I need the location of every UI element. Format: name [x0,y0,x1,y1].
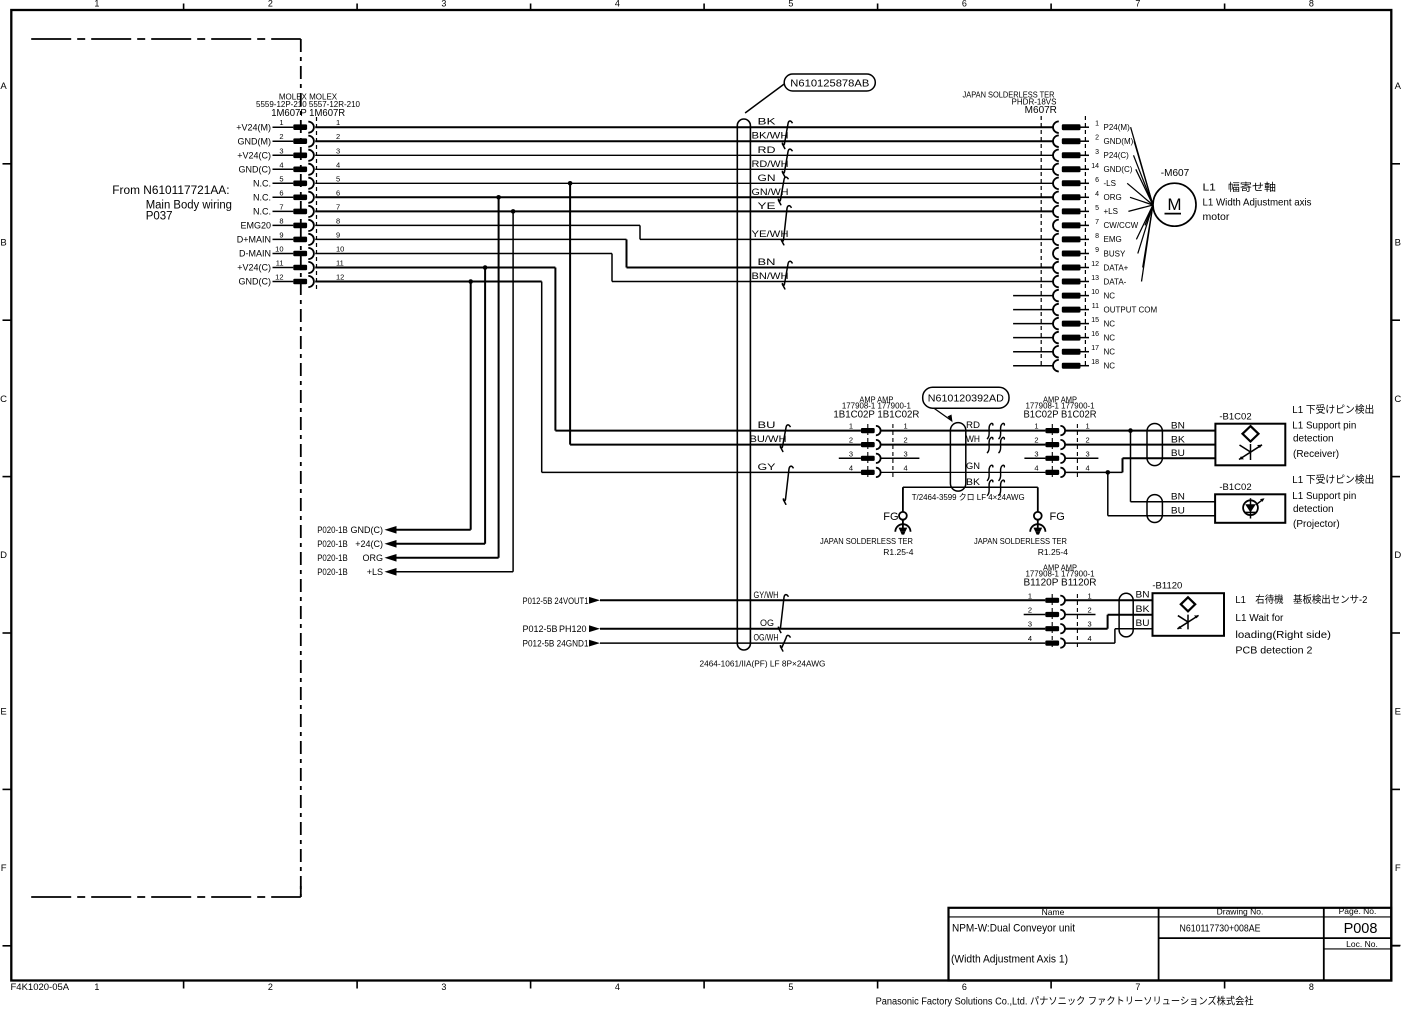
svg-text:+V24(C): +V24(C) [237,263,271,273]
svg-text:12: 12 [275,273,283,282]
svg-text:M607R: M607R [1025,105,1057,116]
svg-text:1: 1 [849,422,853,431]
svg-text:RD: RD [758,145,777,155]
svg-text:3: 3 [904,449,908,458]
dashed lines 1B1C02 [867,424,869,478]
svg-text:PH120: PH120 [559,624,587,634]
dash-dot boundary (main body wiring) [31,38,301,40]
svg-text:P020-1B: P020-1B [317,539,348,549]
svg-text:1: 1 [904,422,908,431]
svg-text:GND(M): GND(M) [238,136,272,146]
svg-text:4: 4 [615,0,620,9]
frame zone ticks [183,4,185,11]
sensor B1C02 projector box [1215,494,1285,523]
svg-text:GY/WH: GY/WH [754,590,779,600]
svg-text:1: 1 [94,0,99,9]
svg-text:DATA-: DATA- [1104,277,1127,286]
svg-text:NC: NC [1104,333,1116,342]
svg-text:BN: BN [1171,420,1185,430]
svg-text:9: 9 [1095,247,1099,254]
svg-text:CW/CCW: CW/CCW [1104,221,1139,230]
cable oval B1120 [1119,593,1133,637]
svg-text:P008: P008 [1344,921,1378,937]
svg-text:RD/WH: RD/WH [752,159,789,169]
svg-text:NC: NC [1104,291,1116,300]
svg-text:BK: BK [1136,604,1150,614]
svg-text:4: 4 [1028,634,1032,643]
svg-text:16: 16 [1091,331,1099,338]
svg-text:BU: BU [1136,618,1150,628]
svg-text:N610117730+008AE: N610117730+008AE [1180,922,1261,934]
svg-text:1: 1 [1028,591,1032,600]
svg-text:7: 7 [336,202,340,211]
svg-text:FG: FG [883,511,898,523]
svg-text:detection: detection [1293,504,1334,515]
svg-text:10: 10 [275,245,283,254]
svg-text:Loc. No.: Loc. No. [1346,939,1378,949]
svg-text:A: A [1395,81,1402,92]
svg-text:5: 5 [279,174,283,183]
svg-text:-B1C02: -B1C02 [1219,412,1251,423]
svg-text:4: 4 [1095,191,1099,198]
svg-text:8: 8 [1309,982,1314,992]
wires 1M607R to M607R [315,126,1052,128]
svg-text:7: 7 [1135,982,1140,992]
svg-text:P020-1B: P020-1B [317,567,348,577]
balloon N610120392AD [923,387,1009,408]
svg-text:L1 幅寄せ軸: L1 幅寄せ軸 [1203,181,1277,194]
svg-text:BN: BN [758,257,776,267]
svg-text:YE/WH: YE/WH [752,229,789,239]
svg-text:1: 1 [336,118,340,127]
svg-text:1: 1 [1095,121,1099,128]
svg-text:9: 9 [336,230,340,239]
svg-text:5: 5 [1095,205,1099,212]
svg-text:BU/WH: BU/WH [750,434,787,444]
svg-text:+LS: +LS [367,567,383,577]
svg-text:P012-5B 24GND1: P012-5B 24GND1 [523,638,589,648]
svg-text:2: 2 [279,132,283,141]
svg-text:17: 17 [1091,345,1099,352]
svg-text:N.C.: N.C. [253,207,271,217]
svg-text:8: 8 [336,216,340,225]
svg-text:4: 4 [1086,463,1090,472]
svg-text:BK: BK [1171,434,1185,444]
svg-text:6: 6 [962,982,967,992]
svg-text:1: 1 [279,118,283,127]
svg-text:4: 4 [849,463,853,472]
title block [949,908,1392,981]
svg-text:(Receiver): (Receiver) [1293,449,1339,460]
svg-text:D+MAIN: D+MAIN [237,235,271,245]
wires to support pin sensors [1065,430,1215,432]
svg-text:YE: YE [758,201,776,211]
svg-text:ORG: ORG [1104,193,1122,202]
svg-text:N610125878AB: N610125878AB [790,78,869,89]
svg-text:P020-1B: P020-1B [317,553,348,563]
svg-text:2: 2 [1034,436,1038,445]
svg-text:6: 6 [279,188,283,197]
svg-text:L1 Support pin: L1 Support pin [1292,491,1356,502]
svg-text:-B1120: -B1120 [1152,581,1182,592]
sensor cable ovals right [1147,424,1162,466]
svg-text:14: 14 [1091,163,1099,170]
svg-text:Page. No.: Page. No. [1339,906,1377,916]
svg-text:6: 6 [962,0,967,9]
svg-text:10: 10 [1091,289,1099,296]
dashed lines B1120 [1051,594,1053,650]
svg-text:3: 3 [336,146,340,155]
svg-text:2: 2 [1095,135,1099,142]
svg-text:3: 3 [849,449,853,458]
svg-text:Panasonic Factory Solutions Co: Panasonic Factory Solutions Co.,Ltd. パナソ… [876,995,1254,1008]
svg-text:11: 11 [336,259,344,268]
svg-text:4: 4 [1088,634,1092,643]
svg-text:2464-1061/IIA(PF) LF 8P×24AWG: 2464-1061/IIA(PF) LF 8P×24AWG [700,659,826,669]
svg-text:12: 12 [1091,261,1099,268]
svg-text:L1 下受けピン検出: L1 下受けピン検出 [1292,403,1374,416]
svg-text:3: 3 [1095,149,1099,156]
svg-text:RD: RD [966,420,981,430]
svg-text:P24(C): P24(C) [1104,151,1130,160]
svg-text:+V24(M): +V24(M) [236,122,271,132]
svg-text:GND(C): GND(C) [239,277,272,287]
svg-text:4: 4 [279,160,283,169]
svg-text:9: 9 [279,230,283,239]
svg-text:BN: BN [1171,491,1185,501]
svg-text:2: 2 [336,132,340,141]
svg-text:NC: NC [1104,348,1116,357]
svg-text:L1 右待機 基板検出センサ-2: L1 右待機 基板検出センサ-2 [1235,593,1367,606]
svg-text:3: 3 [1028,620,1032,629]
svg-text:18: 18 [1091,359,1099,366]
svg-text:GND(C): GND(C) [239,165,272,175]
svg-text:1B1C02P 1B1C02R: 1B1C02P 1B1C02R [833,410,919,421]
svg-text:7: 7 [1095,219,1099,226]
dashed lines B1C02 [1051,424,1053,478]
svg-text:3: 3 [279,146,283,155]
svg-text:NC: NC [1104,319,1116,328]
svg-text:P24(M): P24(M) [1104,123,1131,132]
svg-text:P037: P037 [146,211,173,223]
svg-text:F4K1020-05A: F4K1020-05A [11,982,70,993]
svg-text:GN: GN [966,461,980,471]
svg-text:E: E [1395,707,1401,718]
svg-text:R1.25-4: R1.25-4 [1038,547,1069,557]
svg-text:Drawing No.: Drawing No. [1217,907,1264,917]
svg-text:BUSY: BUSY [1104,249,1126,258]
svg-text:(Projector): (Projector) [1293,519,1340,530]
balloon N610125878AB [784,74,875,91]
svg-text:1: 1 [1034,422,1038,431]
svg-text:EMG20: EMG20 [240,221,271,231]
svg-text:FG: FG [1050,511,1065,523]
svg-text:2: 2 [1028,606,1032,615]
svg-text:12: 12 [336,273,344,282]
cable bundle N610125878AB outline [737,119,750,650]
svg-text:N.C.: N.C. [253,179,271,189]
svg-text:5: 5 [788,0,793,9]
svg-text:+LS: +LS [1104,207,1118,216]
svg-text:motor: motor [1203,211,1230,223]
svg-text:BK: BK [966,477,980,487]
svg-text:3: 3 [1034,449,1038,458]
dashed lines M607R [1040,116,1042,368]
svg-text:P012-5B: P012-5B [523,624,558,634]
svg-text:2: 2 [904,436,908,445]
svg-text:PCB detection 2: PCB detection 2 [1235,646,1312,657]
svg-text:B1C02P B1C02R: B1C02P B1C02R [1024,410,1097,421]
svg-text:2: 2 [1086,436,1090,445]
svg-text:7: 7 [1135,0,1140,9]
svg-text:3: 3 [1088,620,1092,629]
svg-text:5: 5 [336,174,340,183]
motor M607 symbol [1153,183,1196,226]
svg-text:From N610117721AA:: From N610117721AA: [112,185,229,197]
svg-text:P020-1B: P020-1B [317,525,348,535]
svg-text:B: B [0,237,6,248]
svg-text:L1 Wait for: L1 Wait for [1235,613,1284,624]
svg-text:1: 1 [1086,422,1090,431]
svg-text:T/2464-3599 クロ LF 4×24AWG: T/2464-3599 クロ LF 4×24AWG [912,492,1025,502]
svg-text:(Width Adjustment Axis 1): (Width Adjustment Axis 1) [951,954,1068,966]
svg-text:2: 2 [268,0,273,9]
svg-text:-LS: -LS [1104,179,1116,188]
svg-text:6: 6 [336,188,340,197]
svg-text:M: M [1167,195,1181,214]
svg-text:OG: OG [760,618,774,628]
junctions and vertical drops [568,181,573,186]
svg-text:DATA+: DATA+ [1104,263,1129,272]
svg-text:BU: BU [1171,505,1185,515]
svg-text:detection: detection [1293,433,1334,444]
svg-text:L1 Support pin: L1 Support pin [1292,420,1356,431]
svg-text:GND(C): GND(C) [351,525,384,535]
svg-text:JAPAN SOLDERLESS TER: JAPAN SOLDERLESS TER [974,536,1067,546]
svg-text:D-MAIN: D-MAIN [239,249,271,259]
svg-text:E: E [0,707,6,718]
svg-text:3: 3 [441,982,446,992]
svg-text:NPM-W:Dual Conveyor unit: NPM-W:Dual Conveyor unit [952,923,1075,935]
svg-text:NC: NC [1104,362,1116,371]
svg-text:2: 2 [268,982,273,992]
svg-text:OUTPUT COM: OUTPUT COM [1104,305,1158,314]
svg-text:BK/WH: BK/WH [752,131,789,141]
svg-text:C: C [1394,394,1401,405]
svg-text:2: 2 [849,436,853,445]
svg-text:R1.25-4: R1.25-4 [883,547,914,557]
svg-text:8: 8 [279,216,283,225]
svg-text:BN/WH: BN/WH [752,271,789,281]
svg-text:N610120392AD: N610120392AD [928,394,1004,405]
svg-text:BK: BK [758,117,776,127]
svg-text:8: 8 [1309,0,1314,9]
svg-text:4: 4 [1034,463,1038,472]
connector B1C02P/R pins [1045,428,1059,433]
svg-text:F: F [1,863,7,874]
dashed line 1M607R side [316,117,318,290]
svg-text:1: 1 [94,982,99,992]
svg-text:4: 4 [615,982,620,992]
svg-text:4: 4 [904,463,908,472]
svg-text:-M607: -M607 [1161,168,1190,179]
FG left [902,487,904,512]
svg-text:13: 13 [1091,275,1099,282]
svg-text:L1 下受けピン検出: L1 下受けピン検出 [1292,473,1374,486]
svg-text:1: 1 [1088,591,1092,600]
svg-text:D: D [0,550,7,561]
svg-text:GND(C): GND(C) [1104,165,1133,174]
svg-text:B1120P B1120R: B1120P B1120R [1024,578,1097,589]
svg-text:EMG: EMG [1104,235,1122,244]
svg-text:8: 8 [1095,233,1099,240]
svg-text:3: 3 [1086,449,1090,458]
svg-text:JAPAN SOLDERLESS TER: JAPAN SOLDERLESS TER [820,536,913,546]
svg-text:BU: BU [1171,448,1185,458]
svg-text:5: 5 [788,982,793,992]
svg-text:BN: BN [1136,590,1150,600]
connector M607R pins [1053,121,1059,133]
svg-text:A: A [0,81,7,92]
svg-text:10: 10 [336,245,344,254]
svg-text:GN: GN [758,173,776,183]
svg-text:6: 6 [1095,177,1099,184]
svg-text:4: 4 [336,160,340,169]
svg-text:GND(M): GND(M) [1104,137,1134,146]
svg-text:2: 2 [1088,606,1092,615]
svg-text:7: 7 [279,202,283,211]
svg-text:D: D [1394,550,1401,561]
connector 1B1C02P/R pins [861,428,875,433]
svg-text:-B1C02: -B1C02 [1219,482,1251,493]
sensor B1C02 receiver box [1215,424,1285,466]
svg-text:WH: WH [966,434,980,444]
wires into 1B1C02P [555,430,861,432]
svg-text:C: C [0,394,7,405]
svg-text:11: 11 [276,259,284,268]
BK drain wire [903,486,1038,488]
svg-text:loading(Right side): loading(Right side) [1235,630,1331,641]
svg-text:N.C.: N.C. [253,193,271,203]
svg-text:3: 3 [441,0,446,9]
svg-text:11: 11 [1092,303,1099,310]
FG right [1037,487,1039,512]
svg-text:OG/WH: OG/WH [754,633,779,643]
svg-text:+V24(C): +V24(C) [237,151,271,161]
svg-text:F: F [1395,863,1401,874]
connector B1120P/R pins [1045,598,1059,603]
svg-text:15: 15 [1091,317,1099,324]
svg-text:B: B [1395,237,1401,248]
svg-text:ORG: ORG [362,553,383,563]
svg-text:GY: GY [758,462,776,472]
svg-text:L1 Width Adjustment axis: L1 Width Adjustment axis [1203,197,1312,209]
sensor B1120 box [1153,593,1225,636]
wires B1120R to sensor [1024,614,1046,616]
svg-text:BU: BU [758,420,776,430]
cable N610120392AD outline [950,423,965,492]
motor fan wires [1131,127,1153,205]
svg-text:+24(C): +24(C) [355,539,383,549]
svg-text:Name: Name [1042,907,1065,917]
svg-text:P012-5B 24VOUT1: P012-5B 24VOUT1 [523,596,589,606]
